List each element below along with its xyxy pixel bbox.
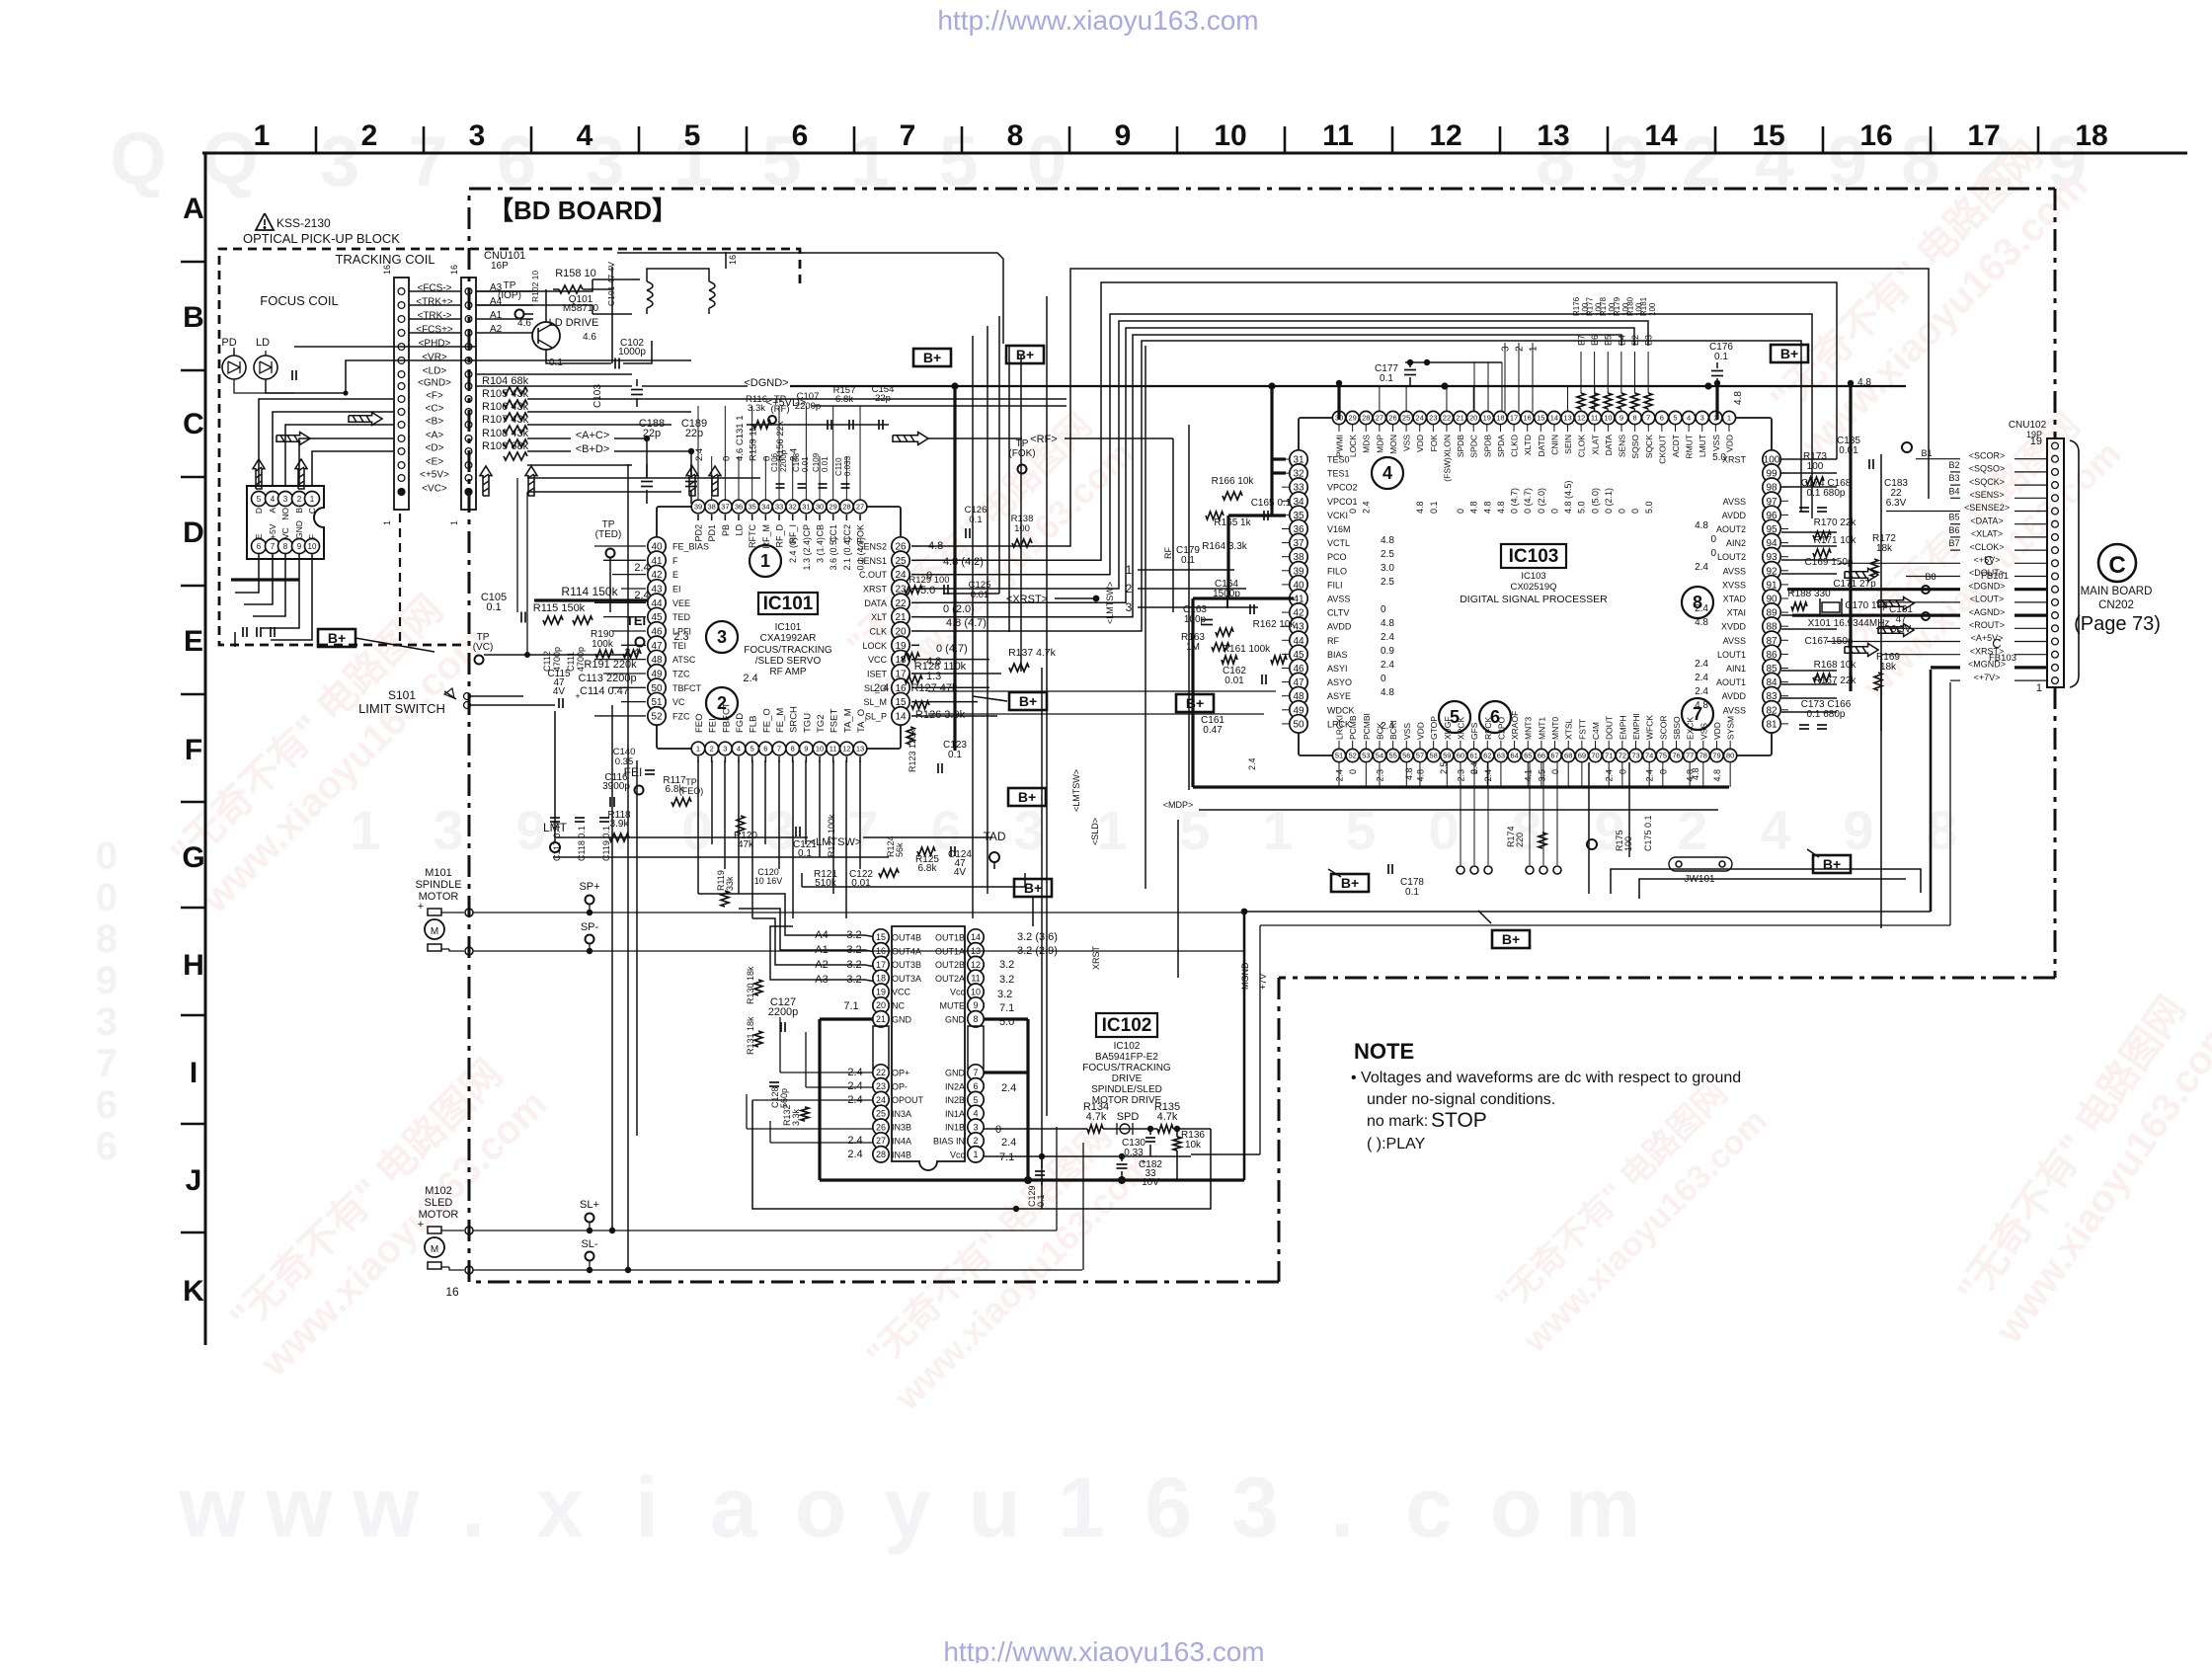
svg-text:29: 29 [829, 503, 837, 512]
svg-text:XVSS: XVSS [1722, 580, 1746, 590]
svg-text:0: 0 [1630, 509, 1640, 514]
svg-text:1: 1 [973, 1150, 978, 1159]
svg-text:22p: 22p [875, 393, 891, 404]
svg-text:35: 35 [749, 503, 756, 512]
svg-text:IN2A: IN2A [945, 1081, 965, 1091]
svg-text:21: 21 [876, 1014, 886, 1024]
svg-text:M: M [431, 1244, 438, 1255]
svg-text:4: 4 [577, 119, 593, 152]
svg-text:18: 18 [2075, 119, 2107, 152]
svg-text:R179: R179 [1613, 296, 1621, 316]
svg-text:SPD: SPD [1117, 1111, 1140, 1123]
svg-text:w: w [353, 1461, 421, 1555]
svg-text:67: 67 [1550, 752, 1558, 760]
svg-text:<SQCK>: <SQCK> [1969, 477, 2005, 487]
svg-text:4: 4 [271, 495, 276, 504]
svg-text:LRCKI: LRCKI [1335, 715, 1345, 740]
svg-text:CLTV: CLTV [1327, 608, 1349, 618]
svg-text:27: 27 [856, 503, 864, 512]
svg-text:MDP: MDP [1375, 435, 1384, 453]
svg-text:61: 61 [1469, 752, 1477, 760]
svg-text:4.7k: 4.7k [1086, 1111, 1107, 1123]
svg-text:AOUT1: AOUT1 [1716, 677, 1746, 687]
svg-text:SPDA: SPDA [1496, 435, 1506, 457]
svg-text:2.4: 2.4 [1695, 673, 1708, 683]
svg-text:6: 6 [96, 1125, 118, 1168]
svg-text:XLAT: XLAT [1590, 435, 1600, 455]
svg-text:GTOP: GTOP [1429, 716, 1439, 740]
svg-text:/SLED SERVO: /SLED SERVO [755, 656, 822, 667]
svg-text:http://www.xiaoyu163.com: http://www.xiaoyu163.com [943, 1636, 1264, 1663]
svg-text:PB: PB [721, 524, 731, 536]
svg-text:VDD: VDD [1415, 722, 1425, 740]
svg-text:TBFCT: TBFCT [672, 683, 701, 693]
svg-text:7: 7 [271, 542, 276, 551]
svg-text:VPCO1: VPCO1 [1327, 497, 1358, 507]
svg-text:IC101: IC101 [763, 594, 814, 614]
svg-text:9: 9 [515, 799, 546, 861]
svg-text:RF: RF [1163, 547, 1173, 559]
svg-text:RF: RF [1327, 636, 1339, 646]
svg-text:4.8: 4.8 [1691, 767, 1700, 780]
svg-text:B+: B+ [1502, 931, 1520, 947]
svg-text:PD2: PD2 [694, 524, 704, 542]
svg-text:6: 6 [763, 745, 767, 754]
svg-text:12: 12 [1429, 119, 1461, 152]
svg-text:24: 24 [1416, 414, 1424, 423]
svg-text:C114 0.47: C114 0.47 [580, 685, 629, 697]
svg-text:0.47: 0.47 [1203, 725, 1223, 736]
svg-text:R114 150k: R114 150k [561, 585, 618, 598]
svg-text:1: 1 [1529, 346, 1540, 352]
svg-text:B: B [294, 508, 304, 514]
svg-text:38: 38 [707, 503, 715, 512]
svg-text:2: 2 [710, 745, 714, 754]
svg-text:C119 0.1: C119 0.1 [601, 826, 611, 861]
svg-text:8: 8 [1007, 119, 1024, 152]
svg-text:www.xiaoyu163.com: www.xiaoyu163.com [1987, 1010, 2212, 1351]
svg-text:16: 16 [1859, 119, 1892, 152]
svg-text:u: u [969, 1461, 1021, 1555]
svg-text:53: 53 [1362, 752, 1370, 760]
svg-text:<DGND>: <DGND> [744, 377, 788, 389]
svg-text:C175 0.1: C175 0.1 [1643, 815, 1653, 851]
svg-text:VSS: VSS [1402, 723, 1412, 740]
svg-text:3.2 (3.6): 3.2 (3.6) [1017, 931, 1058, 943]
svg-text:OUT2B: OUT2B [935, 960, 965, 970]
svg-text:BIAS: BIAS [1327, 650, 1348, 660]
svg-text:a: a [710, 1461, 758, 1555]
svg-text:TES1: TES1 [1327, 469, 1350, 479]
svg-text:CP: CP [802, 524, 812, 537]
svg-text:0: 0 [1618, 509, 1627, 514]
svg-text:B4: B4 [1948, 486, 1959, 496]
svg-text:25: 25 [876, 1109, 886, 1119]
svg-text:IC103: IC103 [1521, 571, 1545, 582]
svg-text:SRCH: SRCH [789, 706, 800, 733]
svg-text:4.6: 4.6 [583, 332, 596, 343]
svg-text:RF_M: RF_M [761, 524, 771, 549]
svg-text:R161 100k: R161 100k [1223, 644, 1271, 655]
svg-text:3: 3 [283, 495, 288, 504]
svg-text:B7: B7 [1948, 538, 1959, 548]
svg-text:3: 3 [1501, 346, 1512, 352]
svg-text:2.4: 2.4 [1695, 562, 1708, 573]
svg-text:B1: B1 [1921, 448, 1932, 458]
svg-text:LOCK: LOCK [862, 641, 887, 651]
svg-text:9: 9 [973, 1000, 978, 1010]
svg-text:VCTL: VCTL [1327, 538, 1350, 548]
svg-text:B+: B+ [328, 630, 346, 646]
svg-text:75: 75 [1659, 752, 1667, 760]
svg-text:0.01: 0.01 [1839, 445, 1858, 456]
svg-text:XUGF: XUGF [1443, 716, 1453, 740]
svg-text:25: 25 [1402, 414, 1410, 423]
svg-text:4.8: 4.8 [1381, 687, 1394, 698]
svg-text:2.3: 2.3 [673, 631, 688, 643]
svg-text:VPCO2: VPCO2 [1327, 483, 1358, 493]
svg-text:0: 0 [721, 456, 732, 461]
svg-text:R130 18k: R130 18k [746, 966, 755, 1004]
svg-text:64: 64 [1510, 752, 1518, 760]
svg-text:MOTOR: MOTOR [419, 1209, 459, 1221]
svg-text:18k: 18k [1880, 662, 1897, 673]
svg-text:10: 10 [816, 745, 824, 754]
svg-text:B+: B+ [923, 350, 941, 365]
svg-text:56k: 56k [895, 842, 905, 857]
svg-text:50: 50 [1293, 719, 1304, 730]
svg-text:0: 0 [96, 834, 118, 878]
svg-text:0: 0 [995, 1124, 1001, 1136]
svg-text:AVSS: AVSS [1723, 566, 1746, 576]
svg-text:69: 69 [1578, 752, 1586, 760]
svg-text:RFCK: RFCK [1483, 717, 1493, 740]
svg-text:0.1 (4.7): 0.1 (4.7) [856, 537, 866, 571]
svg-text:BIAS IN: BIAS IN [933, 1137, 965, 1147]
svg-text:OP+: OP+ [892, 1069, 909, 1078]
svg-text:D: D [254, 508, 264, 514]
svg-text:0 (2.0): 0 (2.0) [1537, 488, 1546, 514]
svg-text:3: 3 [723, 745, 727, 754]
svg-text:0: 0 [1348, 509, 1358, 514]
svg-text:5.0: 5.0 [1712, 452, 1726, 463]
svg-text:WFCK: WFCK [1645, 715, 1655, 740]
svg-text:34: 34 [761, 503, 769, 512]
svg-text:9: 9 [1115, 119, 1132, 152]
svg-text:F: F [672, 556, 678, 566]
svg-text:FOCUS/TRACKING: FOCUS/TRACKING [1082, 1063, 1171, 1073]
svg-text:R177: R177 [1586, 296, 1595, 316]
svg-text:3: 3 [320, 122, 359, 201]
svg-text:2.4: 2.4 [634, 562, 649, 574]
svg-text:16: 16 [1524, 414, 1532, 423]
svg-text:B+: B+ [1780, 346, 1798, 361]
svg-text:100: 100 [1807, 461, 1824, 472]
svg-text:(TED): (TED) [595, 529, 622, 540]
svg-text:EMPHI: EMPHI [1631, 713, 1641, 740]
svg-text:4.8 (4.5): 4.8 (4.5) [1563, 480, 1573, 514]
svg-text:KSS-2130: KSS-2130 [276, 216, 331, 230]
svg-text:10: 10 [1214, 119, 1246, 152]
svg-text:16: 16 [449, 265, 459, 275]
svg-text:I: I [190, 1057, 197, 1089]
svg-text:20: 20 [876, 1000, 886, 1010]
svg-text:FE_M: FE_M [775, 708, 786, 733]
svg-text:4: 4 [1382, 463, 1392, 483]
svg-text:9: 9 [1619, 414, 1623, 423]
svg-text:IN1A: IN1A [945, 1109, 965, 1119]
svg-text:IN3A: IN3A [892, 1109, 911, 1119]
svg-text:18k: 18k [1876, 543, 1893, 554]
svg-text:27: 27 [876, 1136, 886, 1146]
svg-text:39: 39 [694, 503, 702, 512]
svg-text:2.4: 2.4 [1695, 659, 1708, 670]
svg-text:0: 0 [1549, 509, 1559, 514]
svg-text:4: 4 [1687, 414, 1691, 423]
svg-text:13: 13 [1537, 119, 1569, 152]
svg-text:C: C [307, 508, 317, 514]
svg-text:1: 1 [1262, 799, 1293, 861]
svg-text:R137 4.7k: R137 4.7k [1008, 647, 1057, 659]
svg-text:VDD: VDD [1712, 722, 1722, 740]
svg-text:10 16V: 10 16V [754, 876, 783, 886]
svg-text:7.1: 7.1 [999, 1002, 1014, 1014]
svg-text:29: 29 [1348, 414, 1356, 423]
svg-text:3: 3 [433, 799, 463, 861]
svg-text:ACDT: ACDT [1671, 435, 1681, 457]
svg-text:+: + [418, 1219, 424, 1231]
svg-text:DRIVE: DRIVE [1112, 1073, 1143, 1084]
svg-text:w: w [266, 1461, 334, 1555]
svg-text:65: 65 [1524, 752, 1532, 760]
svg-text:6: 6 [973, 1081, 978, 1091]
svg-text:2.4: 2.4 [694, 448, 705, 461]
svg-text:RMUT: RMUT [1685, 435, 1695, 459]
svg-text:6.8k: 6.8k [918, 863, 938, 874]
svg-text:FEI: FEI [708, 718, 719, 733]
svg-text:C118 0.1: C118 0.1 [577, 826, 587, 861]
svg-text:3.2: 3.2 [999, 974, 1014, 986]
svg-text:E: E [254, 533, 264, 539]
svg-text:22: 22 [876, 1068, 886, 1077]
svg-text:21: 21 [1456, 414, 1463, 423]
svg-text:1: 1 [760, 551, 770, 571]
svg-text:3: 3 [1013, 799, 1044, 861]
svg-text:(Page 73): (Page 73) [2074, 613, 2161, 635]
svg-text:0 (2.0): 0 (2.0) [943, 603, 975, 615]
svg-text:<GND>: <GND> [418, 378, 451, 389]
svg-text:4.8: 4.8 [1381, 535, 1394, 546]
svg-text:2.1 (0.4): 2.1 (0.4) [842, 537, 852, 571]
svg-text:4.8: 4.8 [1712, 769, 1722, 782]
svg-text:TG2: TG2 [816, 715, 827, 733]
svg-text:4: 4 [1760, 799, 1790, 861]
svg-text:OUT3B: OUT3B [892, 960, 921, 970]
svg-text:PD: PD [221, 337, 236, 349]
svg-text:1: 1 [254, 119, 271, 152]
svg-text:27: 27 [1376, 414, 1383, 423]
svg-text:28: 28 [1362, 414, 1370, 423]
svg-text:0: 0 [761, 456, 772, 461]
svg-text:SL_P: SL_P [865, 711, 887, 721]
svg-text:<ROUT>: <ROUT> [1969, 620, 2005, 630]
svg-text:+5V: +5V [268, 523, 277, 539]
svg-text:DATA: DATA [1604, 435, 1614, 456]
svg-text:100p: 100p [1184, 614, 1207, 625]
svg-text:18: 18 [876, 974, 886, 984]
svg-text:2.4: 2.4 [1247, 757, 1257, 770]
svg-text:AOUT2: AOUT2 [1716, 524, 1746, 534]
svg-text:B5: B5 [1948, 513, 1959, 522]
svg-text:B+: B+ [1019, 693, 1037, 709]
svg-text:7: 7 [408, 122, 447, 201]
svg-text:59: 59 [1443, 752, 1451, 760]
svg-text:CXA1992AR: CXA1992AR [760, 633, 817, 644]
svg-text:i: i [635, 1461, 659, 1555]
svg-text:C4M: C4M [1591, 722, 1601, 740]
svg-text:IC101: IC101 [775, 622, 802, 633]
svg-text:2: 2 [361, 119, 378, 152]
svg-text:8: 8 [1511, 799, 1541, 861]
svg-text:CLKD: CLKD [1510, 435, 1520, 457]
svg-text:1: 1 [449, 520, 459, 525]
svg-text:5: 5 [1345, 799, 1376, 861]
svg-text:1: 1 [382, 520, 392, 525]
svg-text:XRST: XRST [863, 584, 888, 594]
svg-text:<AGND>: <AGND> [1969, 607, 2006, 617]
svg-text:0.1: 0.1 [1380, 373, 1393, 384]
svg-text:SPDC: SPDC [1469, 435, 1479, 458]
svg-text:76: 76 [1672, 752, 1680, 760]
svg-text:ASYO: ASYO [1327, 677, 1352, 687]
svg-text:TEI: TEI [626, 613, 646, 628]
svg-text:AVSS: AVSS [1723, 497, 1746, 507]
svg-text:GND: GND [294, 520, 304, 539]
svg-text:A: A [183, 193, 204, 225]
svg-text:X101 16.9344MHz: X101 16.9344MHz [1808, 618, 1890, 629]
svg-text:4.8: 4.8 [1381, 618, 1394, 629]
svg-text:14: 14 [1550, 414, 1558, 423]
svg-text:• Voltages and waveforms are d: • Voltages and waveforms are dc with res… [1351, 1070, 1741, 1086]
svg-text:VCC: VCC [892, 988, 911, 997]
svg-text:R109 68k: R109 68k [482, 440, 529, 452]
svg-text:B6: B6 [1948, 525, 1959, 535]
svg-text:0: 0 [1381, 674, 1386, 684]
svg-text:<DATA>: <DATA> [1970, 516, 2003, 525]
svg-text:4.8: 4.8 [1733, 391, 1744, 405]
svg-text:2.5: 2.5 [1381, 549, 1394, 560]
svg-text:GND: GND [892, 1014, 912, 1024]
svg-text:F: F [185, 734, 202, 766]
svg-text:XTAI: XTAI [1727, 608, 1746, 618]
svg-text:IN1B: IN1B [945, 1123, 965, 1133]
svg-text:R115 150k: R115 150k [533, 602, 586, 614]
svg-text:0.1: 0.1 [1714, 352, 1728, 362]
svg-text:CLOK: CLOK [1577, 435, 1587, 457]
svg-text:6.3V: 6.3V [1886, 498, 1907, 509]
svg-text:FB103: FB103 [1989, 653, 2016, 664]
svg-text:72: 72 [1619, 752, 1626, 760]
svg-text:2.4: 2.4 [1695, 686, 1708, 697]
svg-text:ASYE: ASYE [1327, 691, 1351, 701]
svg-text:AVDD: AVDD [1722, 511, 1747, 520]
svg-text:0.1: 0.1 [948, 750, 962, 760]
svg-text:2200p: 2200p [768, 1006, 799, 1018]
svg-text:81: 81 [1766, 719, 1777, 730]
svg-text:FZC: FZC [672, 711, 690, 721]
svg-text:2: 2 [973, 1136, 978, 1146]
svg-text:R104 68k: R104 68k [482, 375, 529, 387]
svg-text:4.8: 4.8 [1469, 501, 1479, 514]
svg-text:Q: Q [201, 118, 259, 199]
svg-text:IN2B: IN2B [945, 1095, 965, 1105]
svg-text:220: 220 [1515, 833, 1525, 847]
svg-text:LD: LD [735, 524, 745, 536]
svg-text:0.01: 0.01 [801, 456, 810, 472]
svg-text:52: 52 [1348, 752, 1356, 760]
svg-text:73: 73 [1631, 752, 1639, 760]
svg-text:11: 11 [971, 974, 980, 984]
svg-text:2.4: 2.4 [847, 1135, 862, 1147]
svg-text:1: 1 [696, 745, 700, 754]
svg-text:R126 3.9k: R126 3.9k [915, 709, 966, 721]
svg-text:TAD: TAD [983, 830, 1005, 843]
svg-text:3: 3 [1231, 1461, 1279, 1555]
svg-text:28: 28 [876, 1150, 886, 1159]
svg-text:LOUT2: LOUT2 [1717, 552, 1746, 562]
svg-text:.: . [461, 1461, 485, 1555]
svg-text:6.8k: 6.8k [835, 394, 853, 405]
svg-text:B+: B+ [1024, 880, 1042, 896]
svg-text:TA_M: TA_M [842, 708, 853, 733]
svg-text:3: 3 [764, 799, 795, 861]
svg-text:<FCS+>: <FCS+> [416, 325, 453, 336]
svg-text:3.3k: 3.3k [748, 403, 765, 414]
svg-text:<D>: <D> [426, 443, 444, 454]
svg-text:22p: 22p [685, 428, 703, 439]
svg-text:7.1: 7.1 [843, 1000, 858, 1012]
svg-text:4V: 4V [553, 686, 566, 697]
svg-text:SPINDLE: SPINDLE [415, 879, 461, 891]
svg-text:3: 3 [717, 627, 727, 647]
svg-text:B2: B2 [1948, 460, 1959, 470]
svg-text:VCC: VCC [868, 655, 888, 665]
svg-text:<E>: <E> [426, 457, 444, 468]
svg-text:DATA: DATA [864, 598, 887, 608]
svg-text:5.0: 5.0 [1577, 501, 1587, 514]
svg-text:FBFCT: FBFCT [721, 702, 732, 733]
svg-text:6: 6 [792, 119, 809, 152]
svg-text:w: w [179, 1461, 247, 1555]
svg-text:2: 2 [1677, 799, 1707, 861]
svg-text:IN4B: IN4B [892, 1150, 911, 1159]
svg-text:15: 15 [1537, 414, 1544, 423]
svg-text:R158 10: R158 10 [555, 268, 596, 279]
svg-text:0.1: 0.1 [1405, 887, 1419, 898]
svg-text:100: 100 [1014, 523, 1030, 534]
svg-text:1: 1 [1058, 1461, 1105, 1555]
svg-text:3 (1.4): 3 (1.4) [816, 537, 826, 563]
svg-text:http://www.xiaoyu163.com: http://www.xiaoyu163.com [937, 5, 1258, 36]
svg-text:4.8 (4.2): 4.8 (4.2) [943, 556, 984, 568]
svg-text:OUT3A: OUT3A [892, 974, 921, 984]
svg-text:4.8: 4.8 [1695, 520, 1708, 531]
svg-text:AVSS: AVSS [1723, 636, 1746, 646]
svg-text:5: 5 [750, 745, 754, 754]
svg-text:10V: 10V [1142, 1177, 1159, 1188]
svg-text:【BD BOARD】: 【BD BOARD】 [488, 196, 677, 225]
svg-text:<+7V>: <+7V> [1974, 673, 2001, 682]
